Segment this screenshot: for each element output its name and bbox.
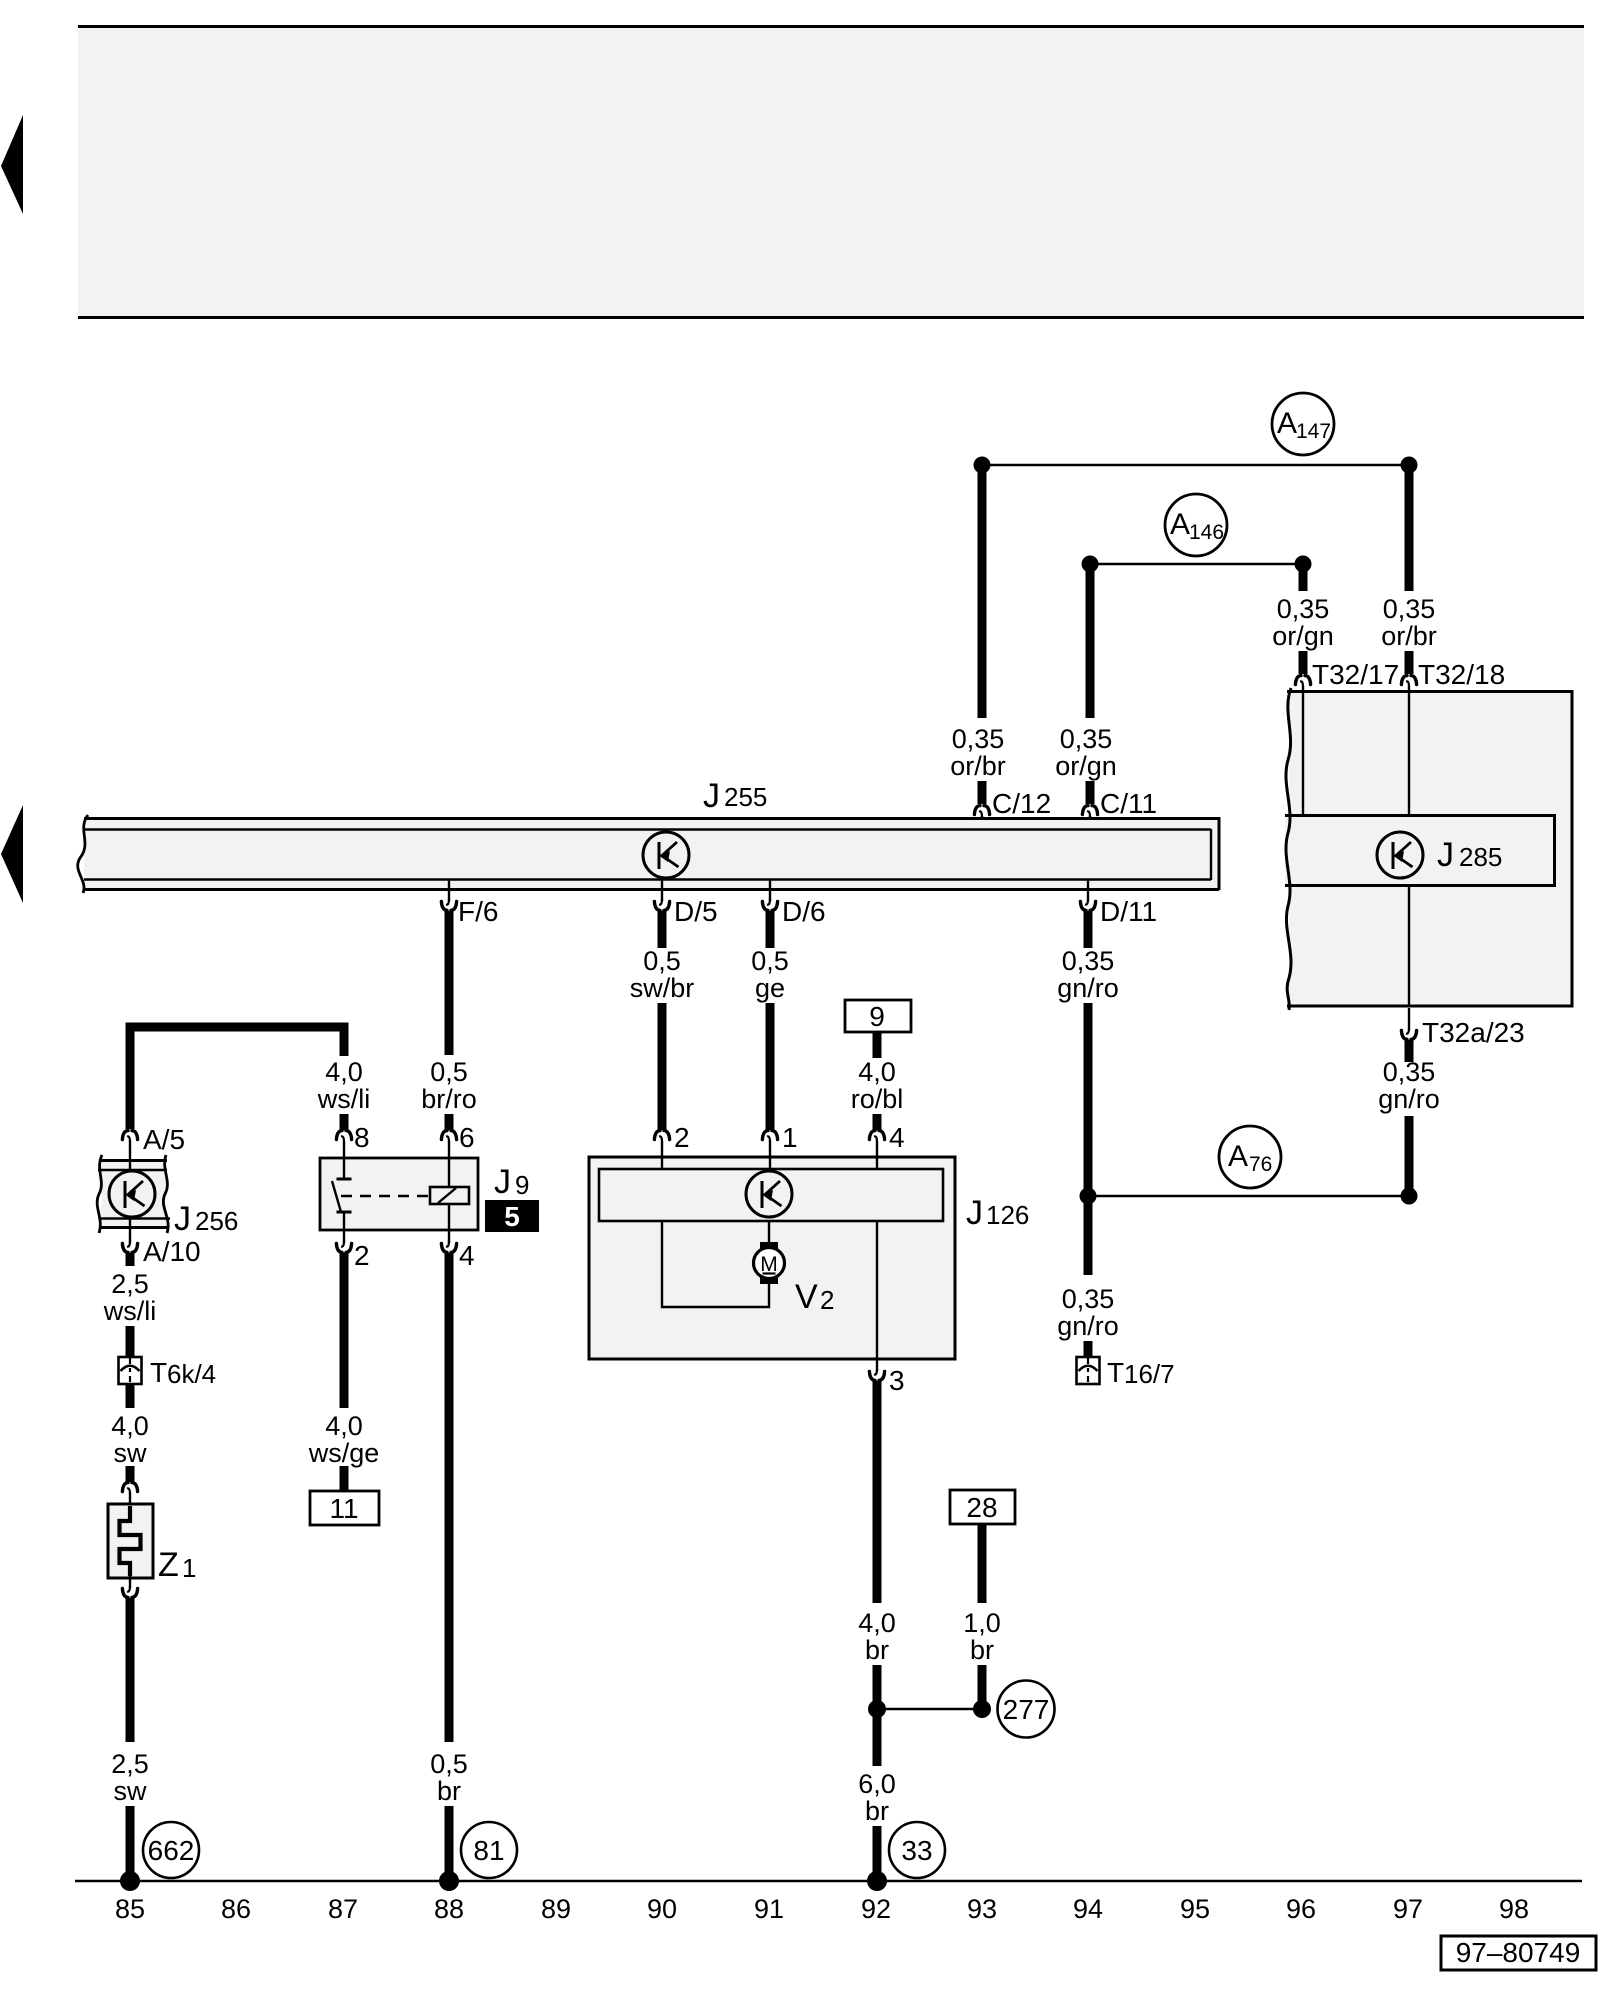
wire to J126 pin 4 (873, 1114, 882, 1130)
wire to T32/17 lower segment (1299, 651, 1308, 674)
svg-text:285: 285 (1459, 842, 1502, 872)
svg-text:br/ro: br/ro (421, 1084, 477, 1114)
fresh air blower J126/V2 box (589, 1157, 955, 1359)
relay switch lead to pin 2 (343, 1212, 345, 1243)
svg-text:93: 93 (967, 1894, 997, 1924)
svg-text:255: 255 (724, 782, 767, 812)
svg-text:85: 85 (115, 1894, 145, 1924)
pin C/12 (974, 806, 989, 817)
connector T6k/4 (119, 1357, 142, 1384)
svg-text:0,35: 0,35 (1383, 594, 1436, 624)
svg-text:ws/li: ws/li (103, 1296, 157, 1326)
wire D/6 to J126 pin 1 lower segment (766, 1003, 775, 1130)
J285 inner bus strip (1285, 814, 1556, 887)
svg-text:T32/18: T32/18 (1418, 659, 1505, 690)
pin T32/17 (1295, 676, 1310, 687)
svg-text:2: 2 (674, 1122, 690, 1153)
wire to ground 92 (873, 1826, 882, 1881)
svg-text:94: 94 (1073, 1894, 1103, 1924)
pin D/6 (769, 880, 771, 901)
svg-text:4,0: 4,0 (111, 1411, 149, 1441)
svg-text:8: 8 (354, 1122, 370, 1153)
wire D/11 down upper segment (1084, 911, 1093, 948)
connector circle A146 (1165, 494, 1227, 556)
svg-text:89: 89 (541, 1894, 571, 1924)
svg-text:A: A (1228, 1140, 1248, 1173)
svg-text:A: A (1170, 508, 1190, 541)
jumper wire to 277 node (877, 1708, 982, 1710)
wire F/6 to relay pin 6 lower segment (445, 1114, 454, 1130)
wire stub A/10 (126, 1253, 135, 1266)
svg-text:2: 2 (820, 1285, 834, 1315)
svg-text:96: 96 (1286, 1894, 1316, 1924)
svg-text:sw/br: sw/br (630, 973, 695, 1003)
wire terminal 9 down (873, 1032, 882, 1058)
svg-text:9: 9 (515, 1170, 529, 1200)
svg-text:or/gn: or/gn (1055, 751, 1117, 781)
J285 torn left edge (1286, 688, 1291, 1010)
pin D/11 (1087, 880, 1089, 901)
svg-text:C/11: C/11 (1100, 788, 1157, 819)
connector circle A147 (1272, 393, 1334, 455)
ground designator circle 33 (889, 1822, 945, 1878)
svg-text:br: br (865, 1635, 889, 1665)
wire F/6 to relay pin 6 upper segment (445, 911, 454, 1055)
wire V2 pin 3 down (873, 1381, 882, 1603)
svg-text:6k/4: 6k/4 (167, 1359, 216, 1389)
J256 control-unit symbol (109, 1171, 155, 1217)
svg-text:sw: sw (114, 1438, 148, 1468)
connector T16/7 (1077, 1357, 1100, 1384)
svg-text:16/7: 16/7 (1124, 1359, 1175, 1389)
svg-text:3: 3 (889, 1365, 905, 1396)
svg-text:87: 87 (328, 1894, 358, 1924)
wire D/11 down long segment through A76 node (1084, 1003, 1093, 1275)
pin 8 (336, 1131, 351, 1142)
wire A146 jumper (1090, 563, 1303, 565)
svg-text:D/11: D/11 (1100, 896, 1157, 927)
svg-text:95: 95 (1180, 1894, 1210, 1924)
svg-text:J: J (174, 1200, 191, 1238)
svg-text:br: br (865, 1796, 889, 1826)
node A76 right (1401, 1188, 1418, 1205)
svg-text:126: 126 (986, 1200, 1029, 1230)
svg-text:0,35: 0,35 (952, 724, 1005, 754)
terminal box 11 (310, 1491, 379, 1525)
svg-text:90: 90 (647, 1894, 677, 1924)
pin A/5 (122, 1131, 137, 1142)
pin Z1 top (122, 1483, 137, 1494)
wire relay pin 4 down (445, 1253, 454, 1742)
connector circle A76 (1219, 1126, 1281, 1188)
wire A146 node to T32/17 upper segment (1299, 564, 1308, 591)
wire D/5 to J126 pin 2 lower segment (658, 1003, 667, 1130)
wire D/6 to J126 pin 1 upper segment (766, 911, 775, 948)
svg-text:J: J (966, 1194, 983, 1232)
svg-text:br: br (970, 1635, 994, 1665)
svg-text:0,5: 0,5 (751, 946, 789, 976)
svg-text:D/5: D/5 (674, 896, 718, 927)
svg-text:256: 256 (195, 1206, 238, 1236)
svg-text:2,5: 2,5 (111, 1749, 149, 1779)
wire label to Z1 (126, 1466, 135, 1482)
J285 control-unit symbol (1377, 832, 1423, 878)
page margin arrow top (1, 115, 23, 214)
lead module to motor (768, 1221, 770, 1244)
node A147 right (1401, 457, 1418, 474)
control unit J285 box (1287, 690, 1574, 1008)
wire to T16/7 lower segment (1084, 1341, 1093, 1357)
wire C/11 lower segment (1086, 781, 1095, 804)
svg-text:F/6: F/6 (458, 896, 498, 927)
svg-text:97: 97 (1393, 1894, 1423, 1924)
ground designator circle 662 (143, 1822, 199, 1878)
J126 inner control module strip (599, 1169, 943, 1221)
svg-text:4: 4 (889, 1122, 905, 1153)
svg-text:1: 1 (782, 1122, 798, 1153)
svg-text:81: 81 (473, 1835, 504, 1866)
wire to terminal 11 box (340, 1466, 349, 1492)
Z1 heating resistor meander (120, 1506, 141, 1576)
wire A76 jumper (1088, 1195, 1409, 1197)
svg-text:98: 98 (1499, 1894, 1529, 1924)
svg-text:T32a/23: T32a/23 (1422, 1017, 1525, 1048)
svg-text:or/br: or/br (950, 751, 1006, 781)
lead module to pin 3 (876, 1221, 878, 1358)
svg-text:A/10: A/10 (143, 1236, 201, 1267)
J256 internal lead upper (129, 1158, 131, 1172)
svg-text:76: 76 (1249, 1153, 1272, 1176)
svg-text:5: 5 (504, 1201, 520, 1232)
svg-text:2: 2 (354, 1240, 370, 1271)
pin T32a/23 (1408, 1008, 1410, 1030)
svg-text:147: 147 (1296, 420, 1331, 443)
ground node 88 (439, 1871, 459, 1891)
svg-text:92: 92 (861, 1894, 891, 1924)
ground node 85 (120, 1871, 140, 1891)
svg-text:28: 28 (966, 1492, 997, 1523)
relay switch lead from pin 8 (343, 1141, 345, 1179)
wire terminal 28 down (978, 1524, 987, 1603)
svg-text:T: T (1107, 1357, 1124, 1388)
header panel (78, 25, 1584, 319)
svg-text:0,35: 0,35 (1062, 1284, 1115, 1314)
relay coil lead top (448, 1141, 450, 1187)
svg-text:0,5: 0,5 (643, 946, 681, 976)
wire T6k/4 to label (126, 1384, 135, 1408)
svg-text:6,0: 6,0 (858, 1769, 896, 1799)
J256 internal lead lower (129, 1217, 131, 1243)
pin Z1 bottom (129, 1576, 131, 1588)
wire A147 jumper (982, 464, 1409, 466)
header bottom border (78, 316, 1584, 319)
svg-text:4,0: 4,0 (325, 1411, 363, 1441)
svg-text:6: 6 (459, 1122, 475, 1153)
wire D/5 to J126 pin 2 upper segment (658, 911, 667, 948)
svg-text:86: 86 (221, 1894, 251, 1924)
terminal box 28 (950, 1490, 1015, 1524)
svg-text:ws/li: ws/li (317, 1084, 371, 1114)
pin 4 J126 (869, 1131, 884, 1142)
svg-text:4: 4 (459, 1240, 475, 1271)
svg-text:0,5: 0,5 (430, 1057, 468, 1087)
svg-text:br: br (437, 1776, 461, 1806)
wire C/12 from A147 node upper segment (978, 465, 987, 718)
svg-text:0,5: 0,5 (430, 1749, 468, 1779)
svg-text:A/5: A/5 (143, 1124, 185, 1155)
ground node 92 (867, 1871, 887, 1891)
svg-text:J: J (1437, 836, 1454, 874)
svg-text:C/12: C/12 (992, 788, 1051, 819)
wire C/12 lower segment (978, 781, 987, 804)
svg-text:91: 91 (754, 1894, 784, 1924)
wire T32a/23 down lower segment (1405, 1116, 1414, 1196)
svg-text:4,0: 4,0 (858, 1608, 896, 1638)
wire into relay pin 8 lower segment (340, 1114, 349, 1130)
svg-text:97–80749: 97–80749 (1456, 1937, 1581, 1968)
svg-text:0,35: 0,35 (1060, 724, 1113, 754)
node A146 left (1082, 556, 1099, 573)
svg-text:0,35: 0,35 (1383, 1057, 1436, 1087)
svg-text:11: 11 (329, 1493, 358, 1524)
ground designator circle 81 (461, 1822, 517, 1878)
J126 control-unit symbol (746, 1171, 792, 1217)
J285 internal lead T32/18 upper (1408, 692, 1410, 814)
motor V2 symbol (754, 1242, 785, 1284)
svg-text:or/gn: or/gn (1272, 621, 1334, 651)
J285 internal lead T32a/23 (1408, 887, 1410, 1007)
svg-text:277: 277 (1003, 1694, 1050, 1725)
wire to T32/18 lower segment (1405, 651, 1414, 674)
svg-text:88: 88 (434, 1894, 464, 1924)
node A76 left on D/11 wire (1080, 1188, 1097, 1205)
pin 2 J126 (654, 1131, 669, 1142)
svg-text:ws/ge: ws/ge (308, 1438, 380, 1468)
ground rail line (75, 1880, 1582, 1882)
relay actuation dashed link (341, 1195, 430, 1197)
pin 2 (336, 1241, 351, 1252)
svg-text:0,35: 0,35 (1277, 594, 1330, 624)
wire A/10 to T6k/4 (126, 1326, 135, 1357)
node A147 left (974, 457, 991, 474)
svg-text:9: 9 (869, 1001, 885, 1032)
control unit J256 bus segment (97, 1155, 170, 1233)
wire corner A/5 to relay pin 8 (130, 1027, 344, 1129)
svg-text:D/6: D/6 (782, 896, 826, 927)
svg-text:T: T (150, 1357, 167, 1388)
lead loop module to motor bottom (662, 1221, 769, 1307)
node junction 92 (868, 1700, 886, 1718)
node 277 (973, 1700, 991, 1718)
wire C/11 from A146 node upper segment (1086, 564, 1095, 718)
header top border (78, 25, 1584, 28)
svg-text:V: V (795, 1278, 818, 1316)
wire to ground 88 (445, 1806, 454, 1881)
svg-text:Z: Z (158, 1546, 179, 1584)
ground grid numbers (115, 1894, 1529, 1924)
wire to junction (873, 1665, 882, 1709)
wire A147 node to T32/18 upper segment (1405, 465, 1414, 591)
wire T32a/23 down upper segment (1405, 1040, 1414, 1062)
pin 1 J126 (762, 1131, 777, 1142)
svg-text:4,0: 4,0 (858, 1057, 896, 1087)
wire to node 277 (978, 1665, 987, 1702)
svg-text:33: 33 (901, 1835, 932, 1866)
heater element Z1 (108, 1504, 153, 1578)
control unit J255 bus bar (78, 815, 1220, 893)
pin 4 (441, 1241, 456, 1252)
J255 control-unit symbol (643, 832, 689, 878)
svg-text:gn/ro: gn/ro (1378, 1084, 1440, 1114)
svg-text:1: 1 (182, 1553, 196, 1583)
ground designator circle 277 (998, 1681, 1055, 1738)
wire to ground 85 (126, 1806, 135, 1881)
node A146 right (1295, 556, 1312, 573)
svg-text:A: A (1277, 407, 1297, 440)
pin A/10 (122, 1241, 137, 1252)
relay J9 box (320, 1158, 478, 1230)
svg-text:or/br: or/br (1381, 621, 1437, 651)
drawing number box 97-80749 (1441, 1936, 1596, 1970)
relay coil lead bottom (448, 1204, 450, 1243)
svg-text:ro/bl: ro/bl (851, 1084, 904, 1114)
svg-text:1,0: 1,0 (963, 1608, 1001, 1638)
J285 internal lead T32/17 (1302, 692, 1304, 814)
wire Z1 to label 2,5 sw (126, 1598, 135, 1742)
pin 3 J126 (876, 1359, 878, 1371)
svg-text:146: 146 (1189, 521, 1224, 544)
svg-text:4,0: 4,0 (325, 1057, 363, 1087)
page margin arrow middle (1, 805, 23, 903)
svg-text:0,35: 0,35 (1062, 946, 1115, 976)
svg-text:J: J (703, 777, 720, 815)
svg-text:sw: sw (114, 1776, 148, 1806)
relay switch lower contact bar (337, 1211, 352, 1214)
pin C/11 (1082, 806, 1097, 817)
pin T32/18 (1401, 676, 1416, 687)
pin F/6 (448, 880, 450, 901)
relay coil (430, 1187, 469, 1204)
svg-text:J: J (494, 1163, 511, 1201)
relay switch blade (332, 1181, 341, 1212)
svg-text:T32/17: T32/17 (1312, 659, 1399, 690)
wire junction to ground upper (873, 1709, 882, 1766)
svg-text:ge: ge (755, 973, 785, 1003)
pin 6 (441, 1131, 456, 1142)
relay switch upper contact bar (337, 1178, 352, 1181)
svg-text:662: 662 (148, 1835, 195, 1866)
svg-text:gn/ro: gn/ro (1057, 973, 1119, 1003)
svg-text:2,5: 2,5 (111, 1269, 149, 1299)
svg-text:gn/ro: gn/ro (1057, 1311, 1119, 1341)
wire relay pin 2 down (340, 1253, 349, 1408)
terminal box 9 (845, 1000, 911, 1032)
relay location tag 5 (485, 1200, 539, 1232)
pin D/5 (661, 880, 663, 901)
